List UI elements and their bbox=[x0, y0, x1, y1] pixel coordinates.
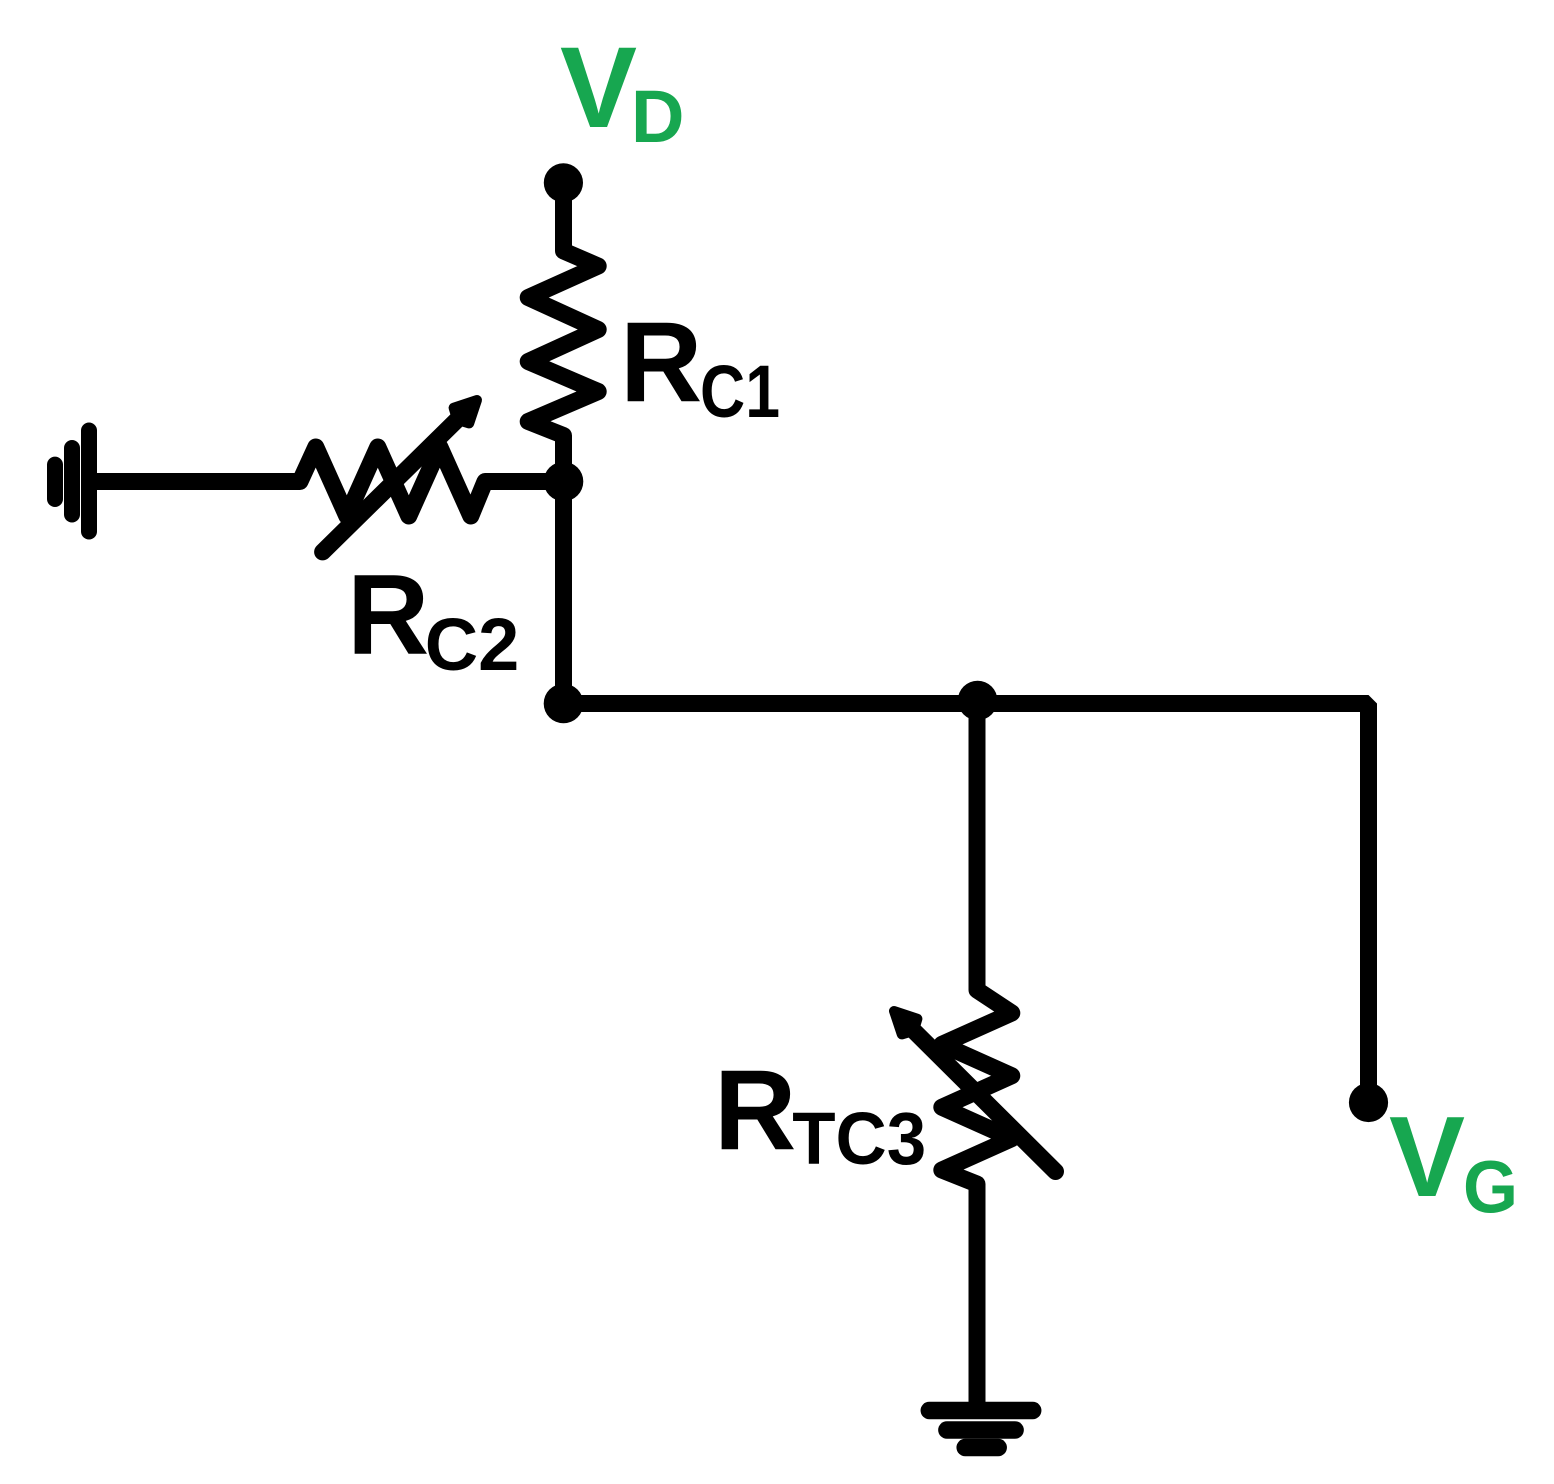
svg-text:R: R bbox=[620, 300, 702, 427]
svg-text:R: R bbox=[347, 552, 429, 679]
svg-text:C1: C1 bbox=[700, 350, 780, 433]
svg-text:C2: C2 bbox=[425, 603, 520, 686]
svg-text:V: V bbox=[560, 23, 637, 152]
svg-text:R: R bbox=[714, 1048, 796, 1175]
svg-text:D: D bbox=[631, 75, 684, 158]
svg-text:G: G bbox=[1463, 1146, 1518, 1229]
svg-text:TC3: TC3 bbox=[792, 1097, 926, 1180]
svg-text:V: V bbox=[1389, 1094, 1465, 1221]
